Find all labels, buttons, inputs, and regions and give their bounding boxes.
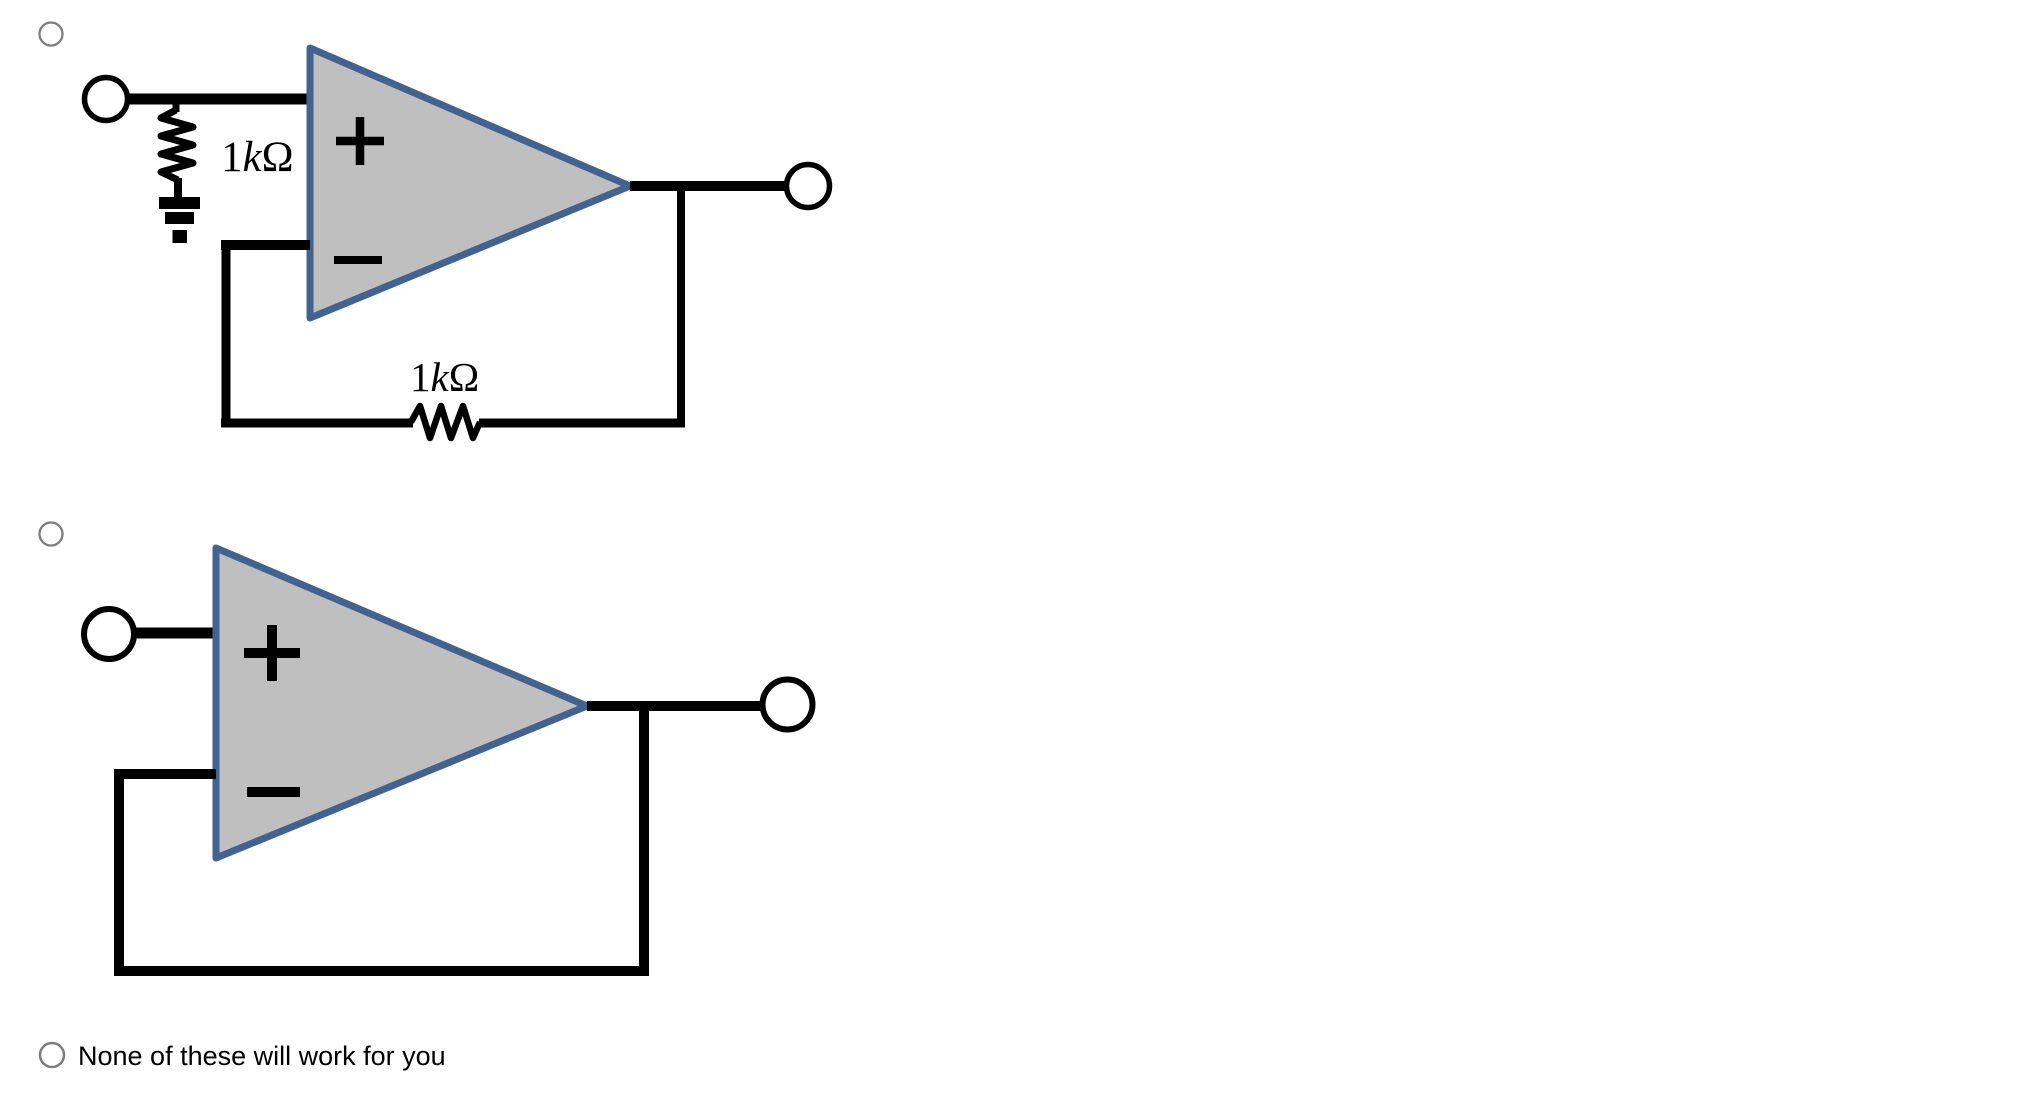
svg-text:1kΩ: 1kΩ xyxy=(221,134,294,181)
svg-text:1kΩ: 1kΩ xyxy=(410,354,479,400)
